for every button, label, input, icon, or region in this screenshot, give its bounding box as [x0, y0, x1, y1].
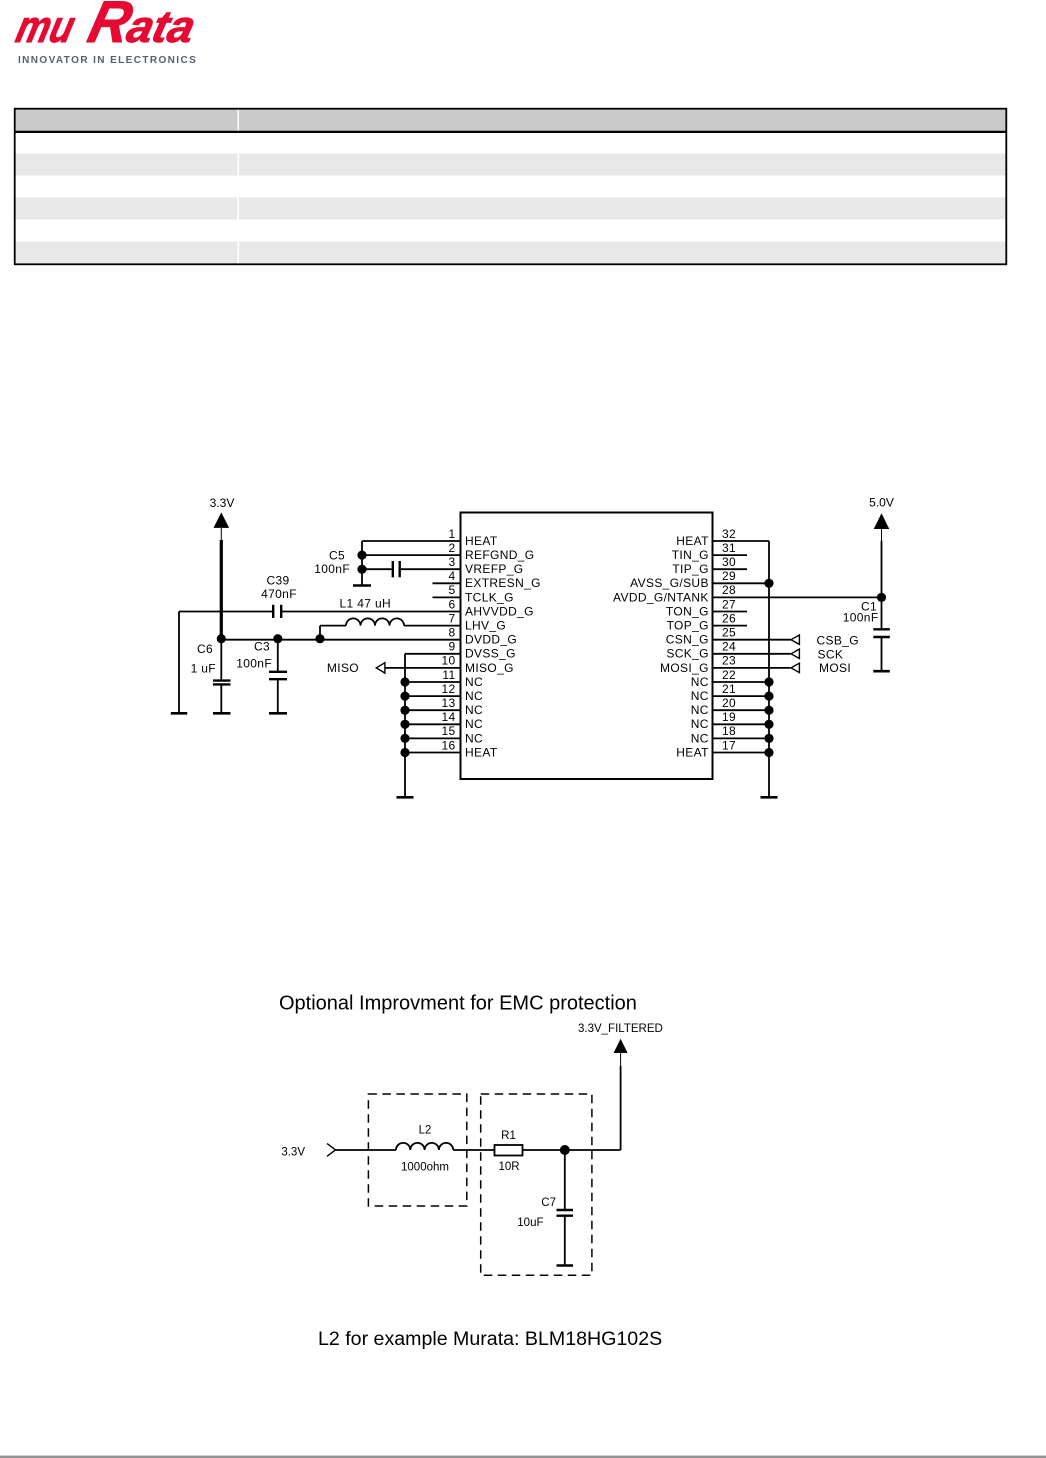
pin 25 (CSN_G) wire, number and label [713, 639, 791, 641]
pin 14 (NC) wire, number and label [405, 723, 461, 725]
svg-text:DVDD_G: DVDD_G [465, 633, 517, 647]
svg-text:28: 28 [722, 583, 736, 597]
svg-text:1: 1 [448, 527, 455, 541]
wire 3.3V input to L2 coil [336, 1149, 397, 1151]
svg-text:12: 12 [441, 682, 455, 696]
svg-text:19: 19 [722, 710, 736, 724]
svg-text:HEAT: HEAT [465, 534, 498, 548]
ground bar below C5 branch [353, 584, 371, 587]
capacitor C7 (wire, plates, bottom bar) [557, 1150, 574, 1266]
wire 3.3V thick vertical to DVDD bus [220, 540, 223, 639]
pin 20 (NC) wire, number and label [713, 709, 770, 711]
junction node pin 15 on left NC bus [400, 734, 409, 743]
svg-text:3.3V_FILTERED: 3.3V_FILTERED [578, 1023, 663, 1035]
svg-text:Optional Improvment for EMC pr: Optional Improvment for EMC protection [279, 993, 637, 1015]
pin 32 (HEAT) wire, number and label [713, 540, 770, 542]
svg-text:11: 11 [442, 668, 455, 682]
pin 26 (TOP_G) wire, number and label [713, 625, 748, 627]
capacitor C6 (wire, plates, ground) [213, 639, 231, 714]
svg-text:L2 for example Murata: BLM18HG: L2 for example Murata: BLM18HG102S [318, 1328, 662, 1350]
resistor R1 body [495, 1145, 523, 1156]
svg-text:15: 15 [441, 724, 455, 738]
svg-text:NC: NC [465, 703, 483, 717]
junction node AVDD / C1 [877, 593, 886, 602]
svg-text:25: 25 [722, 626, 736, 640]
net arrow CSB_G (open triangle) [791, 635, 799, 644]
svg-text:3: 3 [448, 555, 455, 569]
table striped rows fill [15, 154, 1006, 265]
pin 7 (LHV_G) wire, number and label [320, 625, 461, 627]
svg-text:MOSI_G: MOSI_G [660, 661, 709, 675]
net chevron 3.3V input [327, 1144, 336, 1157]
pin 18 (NC) wire, number and label [713, 737, 770, 739]
svg-text:TCLK_G: TCLK_G [465, 590, 514, 604]
pin 29 (AVSS_G/SUB) wire, number and label [713, 582, 770, 584]
svg-text:NC: NC [465, 675, 483, 689]
pin 10 (MISO_G) wire, number and label [386, 667, 461, 669]
svg-text:C39: C39 [266, 574, 289, 588]
pin 17 (HEAT) wire, number and label [713, 752, 770, 754]
inductor L2 coil [396, 1143, 453, 1150]
pin 9 (DVSS_G) wire, number and label [405, 653, 461, 655]
svg-text:3.3V: 3.3V [281, 1146, 305, 1158]
pin 15 (NC) wire, number and label [405, 737, 461, 739]
svg-text:5.0V: 5.0V [869, 496, 894, 510]
svg-text:TIP_G: TIP_G [672, 562, 708, 576]
svg-text:8: 8 [448, 626, 455, 640]
svg-text:R1: R1 [501, 1130, 516, 1142]
svg-text:C7: C7 [541, 1197, 556, 1209]
pin 8 (DVDD_G) wire, number and label [221, 639, 461, 641]
svg-text:18: 18 [722, 724, 736, 738]
wire left vertical from pin6 to ground [178, 612, 180, 714]
svg-text:CSN_G: CSN_G [666, 633, 709, 647]
svg-text:LHV_G: LHV_G [465, 619, 506, 633]
svg-text:MISO_G: MISO_G [465, 661, 514, 675]
capacitor C1 (wire, plates, bottom bar) [873, 597, 890, 671]
svg-text:TOP_G: TOP_G [667, 619, 709, 633]
wire right NC/HEAT bus vertical with ground [761, 541, 778, 797]
junction node pin7 branch on bus [315, 634, 324, 643]
power symbol 5.0V (net label, arrow, stem) [869, 496, 894, 541]
svg-text:HEAT: HEAT [676, 534, 709, 548]
svg-text:mu: mu [12, 2, 81, 52]
junction node pin 20 on right bus [764, 706, 773, 715]
svg-text:L2: L2 [419, 1124, 432, 1136]
junction node pin 16 on left NC bus [400, 748, 409, 757]
svg-text:HEAT: HEAT [676, 745, 709, 759]
svg-text:C5: C5 [329, 549, 345, 563]
svg-text:NC: NC [691, 731, 709, 745]
svg-text:SCK: SCK [818, 647, 844, 661]
junction node pin 13 on left NC bus [400, 706, 409, 715]
svg-text:TON_G: TON_G [666, 604, 709, 618]
svg-text:21: 21 [722, 682, 736, 696]
pin 28 (AVDD_G/NTANK) wire, number and label [713, 596, 882, 598]
svg-text:24: 24 [722, 640, 736, 654]
pin 27 (TON_G) wire, number and label [713, 611, 748, 613]
wire 5.0V vertical to C1 node [881, 541, 883, 598]
svg-text:10uF: 10uF [517, 1217, 543, 1229]
svg-text:6: 6 [448, 597, 455, 611]
junction node pin 12 on left NC bus [400, 692, 409, 701]
svg-text:17: 17 [722, 738, 736, 752]
inductor L1 coil [346, 618, 404, 625]
pin 23 (MOSI_G) wire, number and label [713, 667, 791, 669]
svg-text:22: 22 [722, 668, 736, 682]
svg-text:INNOVATOR IN ELECTRONICS: INNOVATOR IN ELECTRONICS [18, 55, 197, 66]
dashed box around L2 [368, 1094, 466, 1206]
junction node pin3 / C5 vertical [357, 565, 366, 574]
svg-text:27: 27 [722, 597, 736, 611]
pin 5 (TCLK_G) wire, number and label [433, 596, 461, 598]
wire pin1 corner down vertical [361, 541, 363, 586]
svg-text:10: 10 [441, 654, 455, 668]
svg-text:4: 4 [448, 569, 455, 583]
svg-text:2: 2 [448, 541, 455, 555]
junction node pin 11 on left NC bus [400, 677, 409, 686]
table outer border and header rule [14, 109, 1006, 265]
pin 12 (NC) wire, number and label [405, 695, 461, 697]
svg-text:16: 16 [441, 738, 455, 752]
ground bar far left [171, 712, 187, 715]
svg-text:NC: NC [465, 689, 483, 703]
svg-text:NC: NC [691, 689, 709, 703]
svg-text:EXTRESN_G: EXTRESN_G [465, 576, 541, 590]
pin 11 (NC) wire, number and label [405, 681, 461, 683]
dashed box around R1 and C7 [481, 1094, 592, 1275]
svg-text:SCK_G: SCK_G [666, 647, 708, 661]
svg-text:3.3V: 3.3V [210, 496, 235, 510]
svg-text:NC: NC [465, 717, 483, 731]
svg-text:30: 30 [722, 555, 736, 569]
wire pin7 corner down to bus [319, 626, 321, 639]
svg-text:MOSI: MOSI [819, 661, 851, 675]
pin 1 (HEAT) wire, number and label [362, 540, 461, 542]
svg-text:AVDD_G/NTANK: AVDD_G/NTANK [613, 590, 709, 604]
svg-text:9: 9 [448, 640, 455, 654]
svg-text:DVSS_G: DVSS_G [465, 647, 516, 661]
svg-text:VREFP_G: VREFP_G [465, 562, 523, 576]
junction node pin 18 on right bus [764, 734, 773, 743]
svg-text:C6: C6 [197, 642, 213, 656]
junction node pin 21 on right bus [764, 692, 773, 701]
pin 6 (AHVVDD_G) wire, number and label [179, 611, 461, 613]
junction node R1/C7 output [560, 1145, 570, 1155]
svg-text:REFGND_G: REFGND_G [465, 548, 534, 562]
wire NC bus left vertical with ground [397, 654, 414, 798]
svg-text:NC: NC [465, 731, 483, 745]
svg-text:1000ohm: 1000ohm [401, 1162, 449, 1174]
junction node C3 on bus [273, 634, 282, 643]
power symbol 3.3V (net label, arrow, stem) [210, 496, 235, 540]
svg-text:32: 32 [722, 527, 736, 541]
svg-text:29: 29 [722, 569, 736, 583]
capacitor C3 (wire, plates, ground) [269, 639, 287, 714]
net arrow MISO (open triangle) [376, 663, 385, 673]
pin 31 (TIN_G) wire, number and label [713, 554, 748, 556]
junction node pin 14 on left NC bus [400, 720, 409, 729]
svg-text:5: 5 [448, 583, 455, 597]
Murata logo 'muRata' [11, 0, 204, 55]
pin 2 (REFGND_G) wire, number and label [362, 554, 461, 556]
svg-text:20: 20 [722, 696, 736, 710]
pin 16 (HEAT) wire, number and label [405, 752, 461, 754]
svg-text:MISO: MISO [327, 661, 359, 675]
svg-text:NC: NC [691, 703, 709, 717]
svg-text:TIN_G: TIN_G [672, 548, 709, 562]
page bottom separator line [0, 1456, 1046, 1458]
table column separator [238, 109, 240, 264]
pin 24 (SCK_G) wire, number and label [713, 653, 791, 655]
svg-text:100nF: 100nF [314, 562, 350, 576]
net arrow MOSI (open triangle) [791, 663, 799, 672]
table header row fill [15, 109, 1006, 132]
junction node pin2 / C5 vertical [357, 551, 366, 560]
svg-text:ata: ata [122, 2, 201, 52]
svg-text:1 uF: 1 uF [191, 661, 216, 675]
svg-text:14: 14 [441, 710, 455, 724]
svg-text:23: 23 [722, 654, 736, 668]
svg-text:C3: C3 [254, 640, 270, 654]
junction node pin 17 on right bus [764, 748, 773, 757]
svg-text:31: 31 [722, 541, 736, 555]
svg-text:10R: 10R [498, 1161, 519, 1173]
svg-text:470nF: 470nF [261, 587, 297, 601]
junction node pin 19 on right bus [764, 720, 773, 729]
junction node at 3.3V / C6 / DVDD bus [217, 634, 226, 643]
svg-text:NC: NC [691, 717, 709, 731]
capacitor C39 plates [273, 605, 281, 618]
IC U1 body [461, 513, 713, 780]
pin 13 (NC) wire, number and label [405, 709, 461, 711]
wire L2 to R1 [453, 1149, 494, 1151]
capacitor C5 plates [393, 561, 400, 577]
wire R1 to output corner [523, 1149, 621, 1151]
power symbol 3.3V_FILTERED arrow [614, 1039, 628, 1066]
svg-text:NC: NC [691, 675, 709, 689]
pin 4 (EXTRESN_G) wire, number and label [433, 582, 461, 584]
junction node pin 22 on right bus [764, 677, 773, 686]
junction node pin 29 on right bus [764, 579, 773, 588]
pin 22 (NC) wire, number and label [713, 681, 770, 683]
wire 3.3V_FILTERED vertical [620, 1066, 622, 1150]
svg-text:HEAT: HEAT [465, 745, 498, 759]
svg-text:100nF: 100nF [843, 611, 879, 625]
pin 21 (NC) wire, number and label [713, 695, 770, 697]
pin 30 (TIP_G) wire, number and label [713, 568, 748, 570]
svg-text:CSB_G: CSB_G [817, 634, 859, 648]
svg-text:26: 26 [722, 611, 736, 625]
svg-text:100nF: 100nF [236, 656, 272, 670]
svg-text:AHVVDD_G: AHVVDD_G [465, 604, 534, 618]
svg-text:L1 47 uH: L1 47 uH [340, 597, 392, 611]
svg-text:7: 7 [448, 611, 455, 625]
net arrow SCK (open triangle) [791, 649, 799, 658]
pin 19 (NC) wire, number and label [713, 723, 770, 725]
pin 3 (VREFP_G) wire, number and label [362, 568, 461, 570]
svg-text:AVSS_G/SUB: AVSS_G/SUB [630, 576, 709, 590]
svg-text:13: 13 [441, 696, 455, 710]
